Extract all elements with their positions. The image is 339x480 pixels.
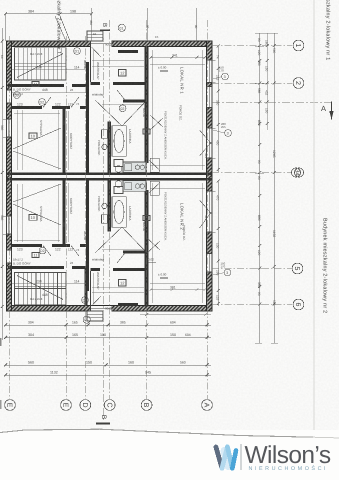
interior wall: corridor right unit2: [86, 181, 89, 292]
wiatrolap vertical text unit2: [96, 272, 100, 289]
interior wall: corridor right unit1: [86, 62, 89, 173]
boxed label 13 unit2: [143, 216, 150, 221]
window leader right wall markers: [213, 77, 222, 79]
circled marker O2: [119, 105, 126, 112]
interior wall: utility right unit2: [108, 181, 111, 232]
interior wall: stair block bottom unit1: [8, 84, 64, 87]
caption bottom-right vertical: [322, 218, 328, 313]
salon counter unit1: [150, 158, 159, 172]
top chain ticks small: [266, 33, 268, 130]
right near-wall chain unit1: [217, 46, 219, 172]
right outer chain rotated labels: [257, 60, 261, 66]
interior wall: bedroom bottom unit2: [12, 244, 43, 247]
room label LOKAL NR 2: [180, 203, 185, 230]
section A dash line: [212, 101, 332, 103]
room label LOKAL NR 1: [180, 67, 185, 94]
balcony door right unit2: [200, 191, 213, 232]
axis circle 6: [293, 299, 304, 310]
axis circle A: [202, 400, 213, 411]
section marker B bottom: [96, 415, 110, 424]
vertical axis dash lines: [9, 20, 207, 399]
circled window marker right mid: [221, 122, 231, 136]
interior wall: bedroom divider unit1: [63, 106, 66, 173]
window sill marks left: [3, 118, 7, 120]
bottom exterior wall: [8, 306, 212, 312]
room label sypialnia 1: [39, 120, 43, 136]
bedroom vertical dims extra: [21, 110, 23, 170]
interior wall: stair block top unit2: [8, 266, 64, 269]
salon top dim band unit1: [150, 63, 205, 65]
salon counter unit2: [150, 181, 159, 195]
leader diagonals bedroom2: [13, 184, 61, 225]
boxed label 10 unit1: [29, 133, 37, 139]
interior dim line corridor unit1: [12, 91, 86, 93]
beam mark unit2: [118, 303, 138, 306]
interior wall: bedroom divider unit2: [63, 181, 66, 248]
small level mark unit1: [160, 70, 168, 71]
section marker B top: [100, 23, 110, 31]
circled marker D1 unit1: [74, 48, 81, 55]
left margin chain: [1, 28, 3, 340]
aneks kuchenny vertical unit2: [164, 192, 168, 241]
bottom chain 1: [6, 324, 212, 326]
boxed label E1 middle room unit2: [119, 280, 127, 287]
bath fixtures unit1: [102, 126, 127, 173]
window left 1: [6, 119, 12, 137]
interior wall thin: middle room left unit2: [90, 271, 92, 307]
axis circle 2: [293, 78, 304, 89]
level mark margin right: [148, 261, 156, 263]
left exterior wall: [7, 41, 12, 311]
top dimension line: [6, 13, 92, 15]
circled window marker right bottom: [221, 262, 231, 276]
leader diagonals top-left texts: [55, 16, 70, 41]
sub-wall dim line right part: [140, 314, 211, 316]
axis circle C: [104, 400, 115, 411]
boxed label E1 middle room unit1: [119, 70, 127, 77]
window right 3: [206, 254, 213, 273]
kitchen counter unit1: [123, 162, 146, 173]
logo separator: [240, 444, 242, 470]
circled marker D1 unit2: [82, 297, 89, 304]
window right 1: [206, 60, 213, 83]
axis circle E left: [5, 400, 16, 411]
top dimension stems: [5, 14, 7, 41]
interior wall: utility right unit1: [108, 122, 111, 173]
entrance door gap bottom wall: [91, 306, 112, 312]
stair enclosure right wall unit2: [85, 269, 88, 306]
bottom chain 2: [6, 337, 212, 339]
caption top-right vertical: [325, 0, 331, 60]
room label pokoj dzienny unit2: [182, 225, 186, 241]
room label pom gosp 2: [97, 196, 101, 212]
interior wall: bath right unit2: [145, 190, 149, 307]
bath fixtures unit2: [102, 181, 127, 228]
middle room horizontals: [92, 65, 144, 67]
leader diagonals bedroom1: [13, 128, 61, 169]
beam mark over middle room door unit1: [118, 50, 138, 53]
salon bottom dim band unit2: [150, 282, 205, 284]
central party wall lower band: [7, 178, 213, 181]
bottom chain 4: [6, 374, 212, 376]
window left 2: [6, 216, 12, 234]
right exterior wall: [207, 41, 213, 311]
logo W icon: [216, 447, 236, 469]
boxed label 10 unit2: [29, 215, 37, 221]
axis circle E2: [61, 400, 72, 411]
interior wall: bath right unit1: [145, 47, 149, 164]
wiatrolap vertical text unit1: [96, 62, 100, 79]
top exterior wall: [8, 41, 212, 47]
interior dim line salon unit2: [150, 289, 205, 291]
room label lazienka 2: [128, 206, 132, 221]
interior dim line salon unit1: [150, 57, 205, 59]
interior dim line stair unit1: [12, 69, 86, 71]
stairs unit2: [15, 273, 67, 305]
entry steps bottom: [87, 311, 103, 321]
axis circle 1: [293, 40, 304, 51]
window right 2: [206, 87, 213, 108]
right outer chain 2: [273, 33, 275, 343]
small level mark unit2: [160, 277, 168, 278]
circled marker O9: [13, 92, 20, 99]
top extra labels: [89, 20, 93, 25]
stairs unit1: [15, 48, 67, 80]
svg-text:NIERUCHOMOŚCI: NIERUCHOMOŚCI: [249, 465, 329, 472]
korytarz vertical text unit2: [69, 198, 73, 214]
section marker A right: [321, 102, 334, 120]
room label pom gosp 1: [97, 140, 101, 156]
korytarz vertical text unit1: [69, 133, 73, 149]
interior wall: bedroom top unit1: [12, 106, 43, 109]
boxed label 11 unit1: [32, 82, 39, 87]
balcony door right unit1: [200, 128, 213, 158]
extra tiny interior texts unit1: [83, 60, 87, 70]
room label sypialnia 2: [39, 206, 43, 222]
interior wall: middle room bottom unit1: [91, 82, 100, 85]
room label lazienka 1: [128, 129, 132, 144]
door swing diagonals unit2: [43, 183, 160, 307]
interior wall: middle room top unit2: [91, 268, 100, 271]
circled marker O1 bottom: [83, 316, 90, 323]
aneks kuchenny vertical unit1: [164, 111, 168, 160]
circled marker O1 top: [118, 24, 125, 31]
axis circle D: [80, 400, 91, 411]
scan edge smudges: [0, 338, 2, 346]
bottom chain 3: [6, 364, 212, 366]
right near-wall chain rotated labels: [215, 55, 219, 59]
extra rotated numbers right chains: [257, 38, 261, 42]
circled window marker right top: [219, 66, 228, 80]
entrance door gap top wall: [91, 40, 112, 46]
room label pokoj dzienny unit1: [179, 105, 183, 121]
axis circle B: [141, 400, 152, 411]
leader diagonals salon unit2 door: [147, 115, 163, 253]
horizontal axis dash lines: [103, 30, 331, 421]
left wall opening unit2: [6, 250, 12, 263]
axis circle 3-4 double: [291, 168, 303, 177]
kitchen counter unit2: [123, 181, 146, 192]
left wall opening unit1: [6, 90, 12, 103]
left margin rotated labels: [0, 55, 4, 59]
entry steps top: [87, 31, 103, 41]
stair tiny text: [30, 52, 43, 56]
circled marker D2 unit1: [39, 99, 46, 106]
right outer chain 1: [259, 33, 261, 343]
scan sheet bottom edge line: [0, 429, 313, 437]
axis circle 5: [292, 263, 303, 274]
caption top-left vertical: [56, 0, 62, 54]
interior dim web extra: [14, 112, 60, 114]
door swing diagonals unit1: [43, 47, 160, 171]
circled marker D3 unit2: [39, 247, 46, 254]
scan fold vertical line: [313, 0, 315, 430]
central party wall upper band: [7, 173, 213, 176]
boxed label 13 unit1: [143, 129, 150, 134]
interior wall thin: middle room left unit1: [90, 47, 92, 83]
interior dim vertical bedroom1: [16, 110, 18, 170]
boxed label 11 unit2: [32, 253, 39, 258]
interior dim line stair unit2: [12, 283, 86, 285]
right near-wall chain unit2: [217, 181, 219, 306]
